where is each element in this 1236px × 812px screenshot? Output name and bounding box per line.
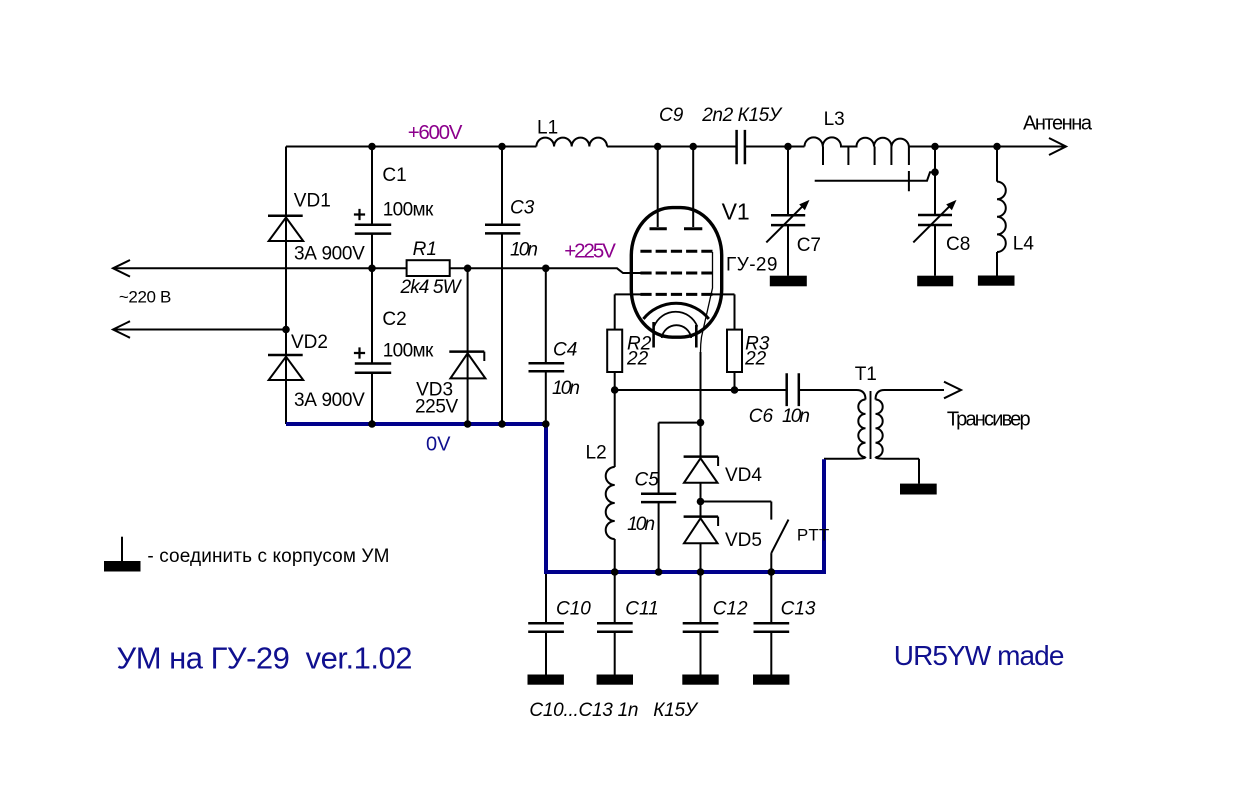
svg-text:Антенна: Антенна [1023, 113, 1093, 135]
svg-text:+225V: +225V [564, 239, 616, 262]
svg-text:VD1: VD1 [294, 191, 331, 212]
capacitor C11 [597, 623, 633, 631]
svg-text:L1: L1 [537, 117, 558, 138]
svg-text:10n: 10n [782, 406, 810, 427]
wire: grid bias line x=700 [700, 352, 702, 572]
wire: C5 branch [659, 423, 701, 572]
inductor L4 [997, 182, 1006, 252]
variable capacitor C8 [918, 215, 952, 225]
wire: left vertical (rectifier string) [285, 147, 287, 425]
wire: top bus from L3 to antenna arrow [909, 146, 1066, 148]
svg-text:3А 900V: 3А 900V [294, 243, 365, 264]
ground C13 [753, 675, 789, 685]
V1 cathode small dome [662, 325, 692, 338]
svg-text:C12: C12 [713, 598, 748, 619]
ground C12 [682, 675, 718, 685]
ground T1 [900, 484, 937, 495]
wire: top bus between L1 and C9 [607, 146, 737, 148]
svg-text:VD5: VD5 [725, 530, 762, 551]
wire: C1/C2 branch [371, 147, 373, 425]
variable capacitor C7 [771, 215, 805, 225]
op tube V1 envelope [631, 208, 721, 338]
capacitor C13 [754, 623, 790, 631]
wire: T1 secondary top to transceiver [876, 390, 945, 400]
V1 grid row 2 [640, 272, 712, 275]
svg-text:22: 22 [744, 349, 767, 370]
switch PTT lever [771, 520, 788, 554]
svg-text:L3: L3 [824, 109, 845, 130]
wire: C11 branch [614, 572, 616, 675]
wire: L2 bottom [614, 539, 616, 572]
L3 taps [823, 147, 909, 166]
wire: C8 branch [934, 147, 936, 276]
svg-text:C3: C3 [510, 197, 535, 218]
svg-text:0V: 0V [426, 433, 451, 455]
capacitor C6 [787, 373, 799, 406]
svg-text:PTT: PTT [797, 525, 829, 544]
wire: 0V blue bus [286, 424, 824, 572]
wire: T1 right winding bottom lead [876, 457, 920, 484]
capacitor C4 [529, 363, 565, 371]
svg-text:C8: C8 [946, 234, 970, 255]
svg-text:~220 В: ~220 В [119, 288, 171, 307]
svg-text:УМ на ГУ-29 ver.1.02: УМ на ГУ-29 ver.1.02 [117, 640, 413, 675]
svg-text:- соединить с корпусом УМ: - соединить с корпусом УМ [147, 546, 389, 567]
svg-text:VD2: VD2 [291, 332, 328, 353]
zener diode VD4 [684, 455, 719, 458]
capacitor C3 [485, 225, 520, 234]
svg-text:ГУ-29: ГУ-29 [726, 254, 778, 275]
wire: T1 left winding bottom lead [824, 457, 866, 459]
capacitor C2 [355, 364, 391, 373]
svg-text:T1: T1 [855, 364, 877, 385]
capacitor C9 [737, 130, 745, 164]
transformer T1 right winding [876, 400, 883, 458]
transformer T1 left winding [858, 400, 865, 458]
wire: VD3 branch [467, 268, 469, 424]
inductor L3 [805, 137, 909, 146]
wire: +600V top bus left segment [286, 146, 536, 148]
transceiver arrow [944, 382, 961, 399]
wire: AC input line 1 [113, 267, 407, 269]
wire: C10 branch [545, 572, 547, 675]
wire: PTT bottom lead [770, 553, 772, 572]
svg-text:UR5YW made: UR5YW made [894, 640, 1065, 671]
svg-text:10n: 10n [510, 240, 538, 261]
svg-text:L4: L4 [1013, 234, 1035, 255]
svg-text:C10: C10 [556, 598, 591, 619]
ground C7 [770, 276, 807, 287]
ground C8 [917, 276, 953, 287]
svg-text:C13: C13 [781, 598, 816, 619]
wire: C7 branch [787, 147, 789, 276]
wire: C12 branch [700, 572, 702, 675]
ground legend symbol [121, 537, 123, 561]
capacitor C12 [683, 623, 719, 631]
svg-text:V1: V1 [722, 198, 750, 224]
svg-text:C5: C5 [635, 469, 660, 490]
ground C11 [597, 675, 633, 685]
wire: top bus between C9 and L3 [745, 146, 805, 148]
wire: VD4/VD5 junction to PTT [701, 502, 772, 520]
resistor R1 [407, 260, 450, 276]
svg-text:+600V: +600V [408, 121, 463, 144]
diode VD2 [268, 354, 303, 357]
svg-text:22: 22 [626, 349, 649, 370]
svg-text:225V: 225V [415, 397, 459, 418]
wire: R2 bottom to L2 [614, 372, 616, 467]
capacitor C10 [528, 623, 564, 631]
wire: C3 branch [501, 147, 503, 425]
resistor R3 [727, 330, 742, 372]
V1 anode plates [650, 227, 703, 230]
svg-text:10n: 10n [552, 378, 580, 399]
wire: AC input line 2 [113, 329, 286, 331]
svg-text:R1: R1 [413, 239, 437, 260]
svg-text:L2: L2 [586, 443, 607, 464]
wire: R3 top lead [713, 294, 735, 329]
wire: C13 branch [770, 572, 772, 675]
svg-text:2k4 5W: 2k4 5W [400, 277, 463, 298]
svg-text:C4: C4 [553, 340, 577, 361]
wire: +225V line to tube [450, 268, 641, 273]
antenna arrow [1049, 138, 1066, 155]
svg-text:C10...C13 1n К15У: C10...C13 1n К15У [529, 700, 698, 721]
svg-text:C6: C6 [749, 406, 774, 427]
svg-text:100мк: 100мк [383, 340, 434, 361]
svg-text:C7: C7 [797, 235, 821, 256]
wire: L4 branch [996, 147, 998, 276]
wire: cathode bus y=390 [615, 390, 866, 400]
svg-text:C9: C9 [659, 105, 684, 126]
inductor L1 [536, 138, 607, 147]
svg-text:2n2 К15У: 2n2 К15У [701, 105, 783, 126]
V1 grid row 1 [640, 250, 712, 253]
wire: R3 bottom [734, 372, 736, 390]
svg-text:C2: C2 [382, 309, 406, 330]
zener diode VD3 [449, 350, 484, 353]
svg-text:VD4: VD4 [725, 465, 762, 486]
svg-text:C1: C1 [382, 165, 406, 186]
zener diode VD5 [684, 515, 719, 518]
L3 slider (tap selector) [815, 171, 935, 191]
capacitor C5 [641, 494, 676, 502]
ground L4 [978, 276, 1015, 286]
V1 anode leads [658, 147, 694, 228]
svg-text:10n: 10n [627, 514, 655, 535]
inductor L2 [606, 467, 615, 539]
ground C10 [528, 675, 564, 685]
transformer T1 core [870, 391, 872, 459]
svg-text:C11: C11 [625, 598, 658, 619]
svg-text:Трансивер: Трансивер [947, 408, 1031, 430]
C1 plus sign [354, 209, 365, 220]
wire: R2 top lead [615, 294, 641, 329]
V1 grid row 3 [640, 293, 712, 296]
V1 cathode inner dome [654, 312, 697, 327]
svg-text:100мк: 100мк [383, 200, 434, 221]
V1 cathode outer dome [643, 303, 708, 319]
svg-text:3А 900V: 3А 900V [294, 390, 365, 411]
resistor R2 [607, 330, 622, 372]
V1 heater pins [654, 322, 697, 348]
diode VD1 [268, 215, 303, 218]
wire: C4 branch [545, 268, 547, 424]
V1 grid1 internal lead [701, 252, 713, 352]
capacitor C1 [355, 225, 391, 234]
C2 plus sign [354, 347, 365, 358]
